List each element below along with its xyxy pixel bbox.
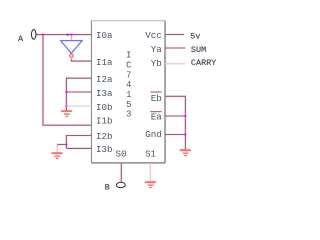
svg-text:I0a: I0a <box>96 30 113 41</box>
svg-text:Ya: Ya <box>151 44 163 55</box>
svg-text:S1: S1 <box>145 149 157 160</box>
svg-text:Eb: Eb <box>151 93 162 104</box>
IC name 74153 vertical <box>126 51 131 120</box>
svg-text:I2a: I2a <box>96 74 113 85</box>
node junction Ea <box>184 115 186 117</box>
pin labels right <box>145 30 162 140</box>
ground G2 <box>51 152 62 159</box>
svg-text:I0b: I0b <box>96 102 113 113</box>
svg-text:I2b: I2b <box>96 131 113 142</box>
pin stub S1 to ground G4 (light) <box>149 163 151 181</box>
node junction I0b/ground <box>66 105 68 107</box>
svg-text:5v: 5v <box>190 32 200 42</box>
wire I3a <box>66 91 91 93</box>
svg-text:Vcc: Vcc <box>145 30 162 41</box>
pin stub Yb to CARRY (light) <box>165 63 185 65</box>
svg-text:I1b: I1b <box>96 115 113 126</box>
svg-text:Ea: Ea <box>151 112 163 123</box>
inverter U2 triangle <box>61 41 83 54</box>
wire I2a left and down <box>66 78 91 110</box>
wire A branch down to I1b <box>43 35 92 126</box>
IC U1 body (74153) <box>92 21 166 163</box>
svg-text:A: A <box>18 34 24 44</box>
ground G3 <box>180 149 191 156</box>
wire Gnd <box>165 134 185 136</box>
svg-text:B: B <box>105 183 110 193</box>
svg-text:S0: S0 <box>115 149 126 160</box>
wire to ground G2 <box>57 144 66 146</box>
wire I2b left and down <box>66 136 91 149</box>
svg-text:5: 5 <box>126 100 131 110</box>
wire I3b <box>66 147 91 149</box>
svg-text:4: 4 <box>126 80 131 90</box>
pin labels bottom S0 S1 <box>115 149 156 160</box>
node junction inverter tap <box>71 34 73 36</box>
svg-text:C: C <box>126 60 131 70</box>
svg-text:1: 1 <box>126 90 131 100</box>
wire S0 down to port B <box>120 163 122 182</box>
wire Ea <box>165 115 185 117</box>
node junction I3b/ground2 <box>66 144 68 146</box>
wire Vcc to 5v <box>165 34 184 36</box>
wire I0b (light net) <box>66 105 91 107</box>
svg-text:I: I <box>126 51 131 61</box>
ground G2 pin (light) <box>56 145 58 153</box>
wire Eb right and down to ground G3 <box>165 96 185 149</box>
inverter U2 input pin stub <box>71 36 73 41</box>
node junction A-branch <box>42 34 44 36</box>
svg-text:SUM: SUM <box>191 45 206 55</box>
wire inverter output to I1a <box>71 59 91 61</box>
svg-text:I3a: I3a <box>96 88 113 99</box>
svg-text:3: 3 <box>126 110 131 120</box>
svg-text:I1a: I1a <box>96 57 113 68</box>
overline Eb <box>151 91 162 93</box>
svg-text:Gnd: Gnd <box>145 129 162 140</box>
svg-text:I3b: I3b <box>96 144 113 155</box>
svg-text:Yb: Yb <box>151 58 162 69</box>
port A <box>32 30 38 40</box>
pin labels left <box>96 30 113 155</box>
svg-text:CARRY: CARRY <box>191 58 217 68</box>
svg-text:7: 7 <box>126 70 131 80</box>
overline Ea <box>150 111 161 113</box>
wire A to I0a <box>36 34 91 36</box>
node junction Gnd <box>184 134 186 136</box>
node junction I3a <box>66 91 68 93</box>
inverter U2 output bubble <box>70 54 73 57</box>
wire Ya to SUM <box>165 47 186 49</box>
wire arrow on A net <box>67 34 70 36</box>
ground G4 <box>145 181 156 188</box>
inverter U2 output pin stub <box>70 57 72 59</box>
ground G1 <box>61 110 72 117</box>
port B <box>116 182 125 187</box>
